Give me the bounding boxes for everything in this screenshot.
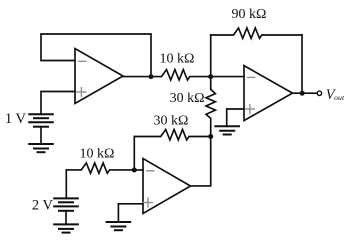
wire U1 feedback loop [41,34,151,77]
node A [208,74,213,79]
resistor 30k (U2 feedback) [134,130,210,140]
op-amp U3 plus mark [246,105,255,114]
terminal Vout [317,91,321,95]
node U1 output [149,74,154,79]
wire 1V battery to ground [40,127,42,144]
resistor 10k (bottom) [66,163,134,173]
wire U3 noninverting input to ground [227,109,244,126]
ground (1V) [29,144,53,152]
op-amp U2 minus mark [147,170,154,172]
op-amp U2 plus mark [144,198,153,207]
svg-text:30 kΩ: 30 kΩ [154,114,189,129]
battery 2V [54,198,78,210]
wire 10k to 2V battery [65,170,67,199]
wire node A to U3 inverting input [211,76,244,78]
svg-text:2 V: 2 V [32,198,54,214]
wire 90k left riser [210,35,212,77]
resistor 90k [211,28,302,38]
svg-text:30 kΩ: 30 kΩ [170,91,205,106]
resistor 10k (top) [151,70,211,80]
op-amp U1 [75,49,123,104]
wire 2V battery to ground [65,211,67,225]
wire U1 noninverting input to 1V battery [41,92,75,115]
ground (U3 + input) [215,126,239,134]
wire U2 inverting riser [133,137,135,171]
svg-text:10 kΩ: 10 kΩ [160,51,195,66]
resistor 30k (vertical) [206,77,215,137]
wire U2 noninverting input to ground [118,204,143,222]
node U2 inverting input [132,168,137,173]
ground (U2 + input) [107,222,131,230]
wire node B to U2 output [191,137,211,186]
wire node to U2 input [134,169,143,171]
wire U1 output to node [123,76,151,78]
op-amp U1 plus mark [77,88,86,97]
wire 90k right riser [301,35,303,93]
node U3 output [300,91,305,96]
svg-text:10 kΩ: 10 kΩ [80,147,115,162]
node B [208,134,213,139]
op-amp U3 [244,66,293,121]
svg-text:1 V: 1 V [5,111,27,127]
wire U3 output [293,92,318,94]
ground (2V) [54,224,78,232]
op-amp U1 minus mark [79,60,86,62]
op-amp U3 minus mark [248,76,255,78]
op-amp U2 [143,159,191,214]
battery 1V [29,114,53,126]
svg-text:90 kΩ: 90 kΩ [232,7,267,22]
